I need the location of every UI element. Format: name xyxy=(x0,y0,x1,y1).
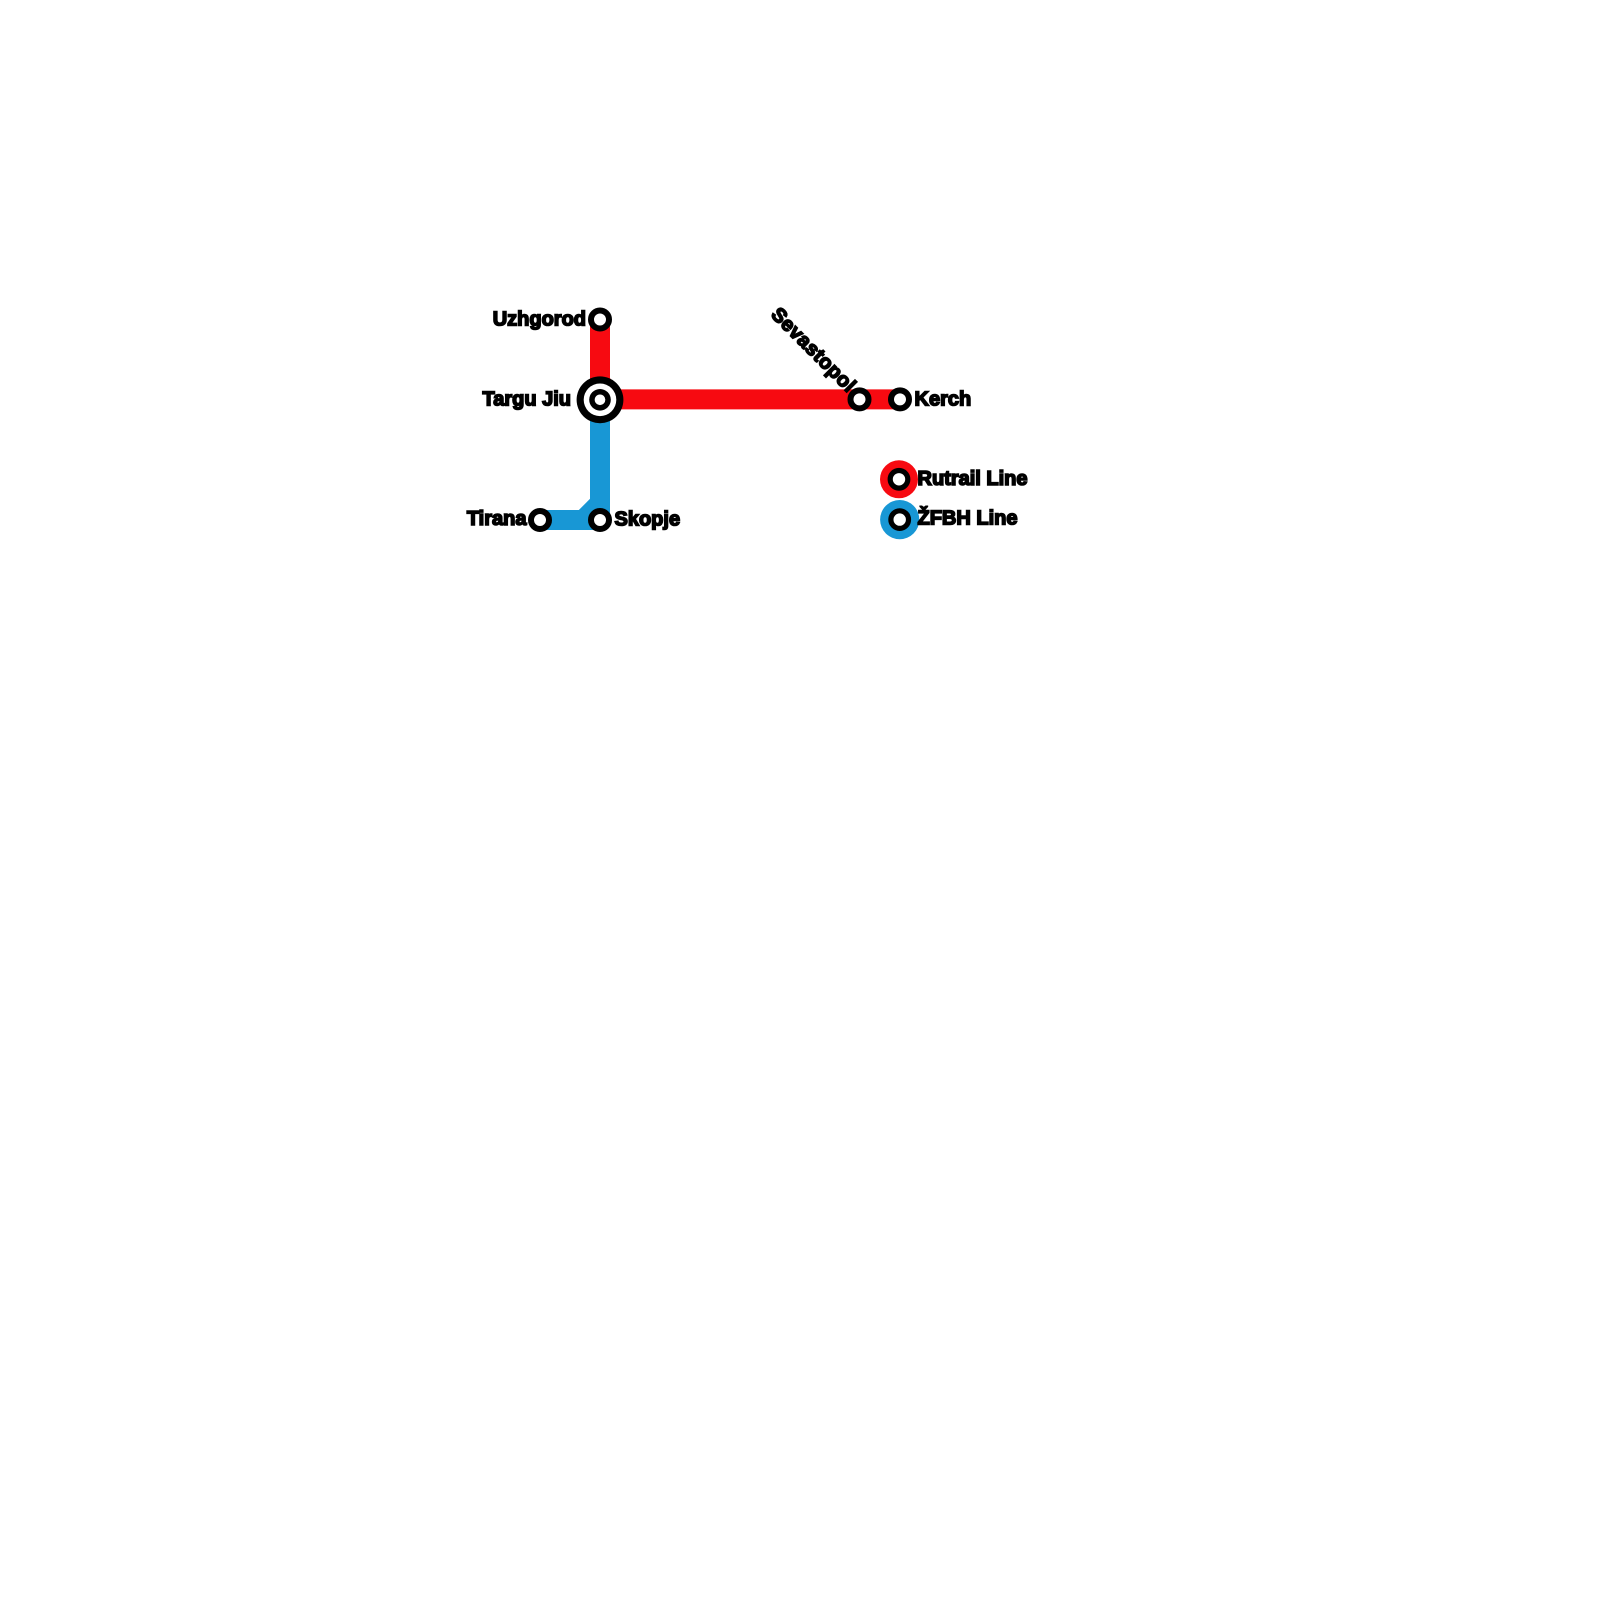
svg-text:Targu Jiu: Targu Jiu xyxy=(482,389,571,411)
svg-text:Skopje: Skopje xyxy=(615,509,681,531)
svg-text:ŽFBH Line: ŽFBH Line xyxy=(918,506,1018,530)
svg-text:Uzhgorod: Uzhgorod xyxy=(493,309,586,331)
svg-text:Rutrail Line: Rutrail Line xyxy=(918,468,1028,490)
svg-text:Tirana: Tirana xyxy=(467,508,528,530)
svg-text:Kerch: Kerch xyxy=(915,389,972,411)
